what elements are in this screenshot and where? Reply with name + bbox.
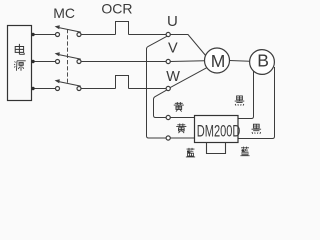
wire black lower from rectifier to brake	[239, 67, 275, 139]
svg-text:U: U	[167, 13, 178, 30]
glyph dian	[15, 44, 24, 55]
label huang upper	[174, 102, 184, 112]
wire row2 from source	[32, 61, 56, 63]
junction dot row3	[31, 87, 34, 90]
wire row3 MC to OCR	[81, 88, 116, 90]
power source box	[8, 26, 32, 101]
junction dot row1	[31, 33, 34, 36]
svg-text:B: B	[257, 50, 269, 70]
OCR heater element row3	[116, 76, 129, 89]
contactor MC pole 3	[55, 79, 81, 90]
label hei lower	[251, 124, 261, 134]
junction dot row2	[31, 60, 34, 63]
terminal W	[166, 86, 170, 90]
MC linkage dashed line	[67, 29, 69, 85]
wire row1 from source	[32, 34, 56, 36]
label hei upper	[235, 96, 245, 106]
svg-text:MC: MC	[53, 5, 75, 21]
svg-text:V: V	[168, 40, 178, 56]
wire yellow upper into rectifier	[170, 117, 194, 119]
glyph yuan	[14, 61, 26, 71]
contactor MC pole 1	[55, 25, 81, 36]
wire black upper from rectifier to brake	[239, 71, 254, 119]
label lan right	[240, 147, 249, 156]
wire U tap down to rectifier lower input	[147, 36, 168, 138]
wire row1 OCR to U	[129, 34, 167, 36]
wire row2 MC to V	[81, 61, 166, 63]
wire W tap down to rectifier upper input	[154, 90, 168, 118]
brake rectifier box	[195, 116, 239, 143]
svg-text:M: M	[211, 51, 226, 71]
terminal yellow lower	[166, 136, 170, 140]
wire V to motor	[170, 60, 204, 63]
wire row3 from source	[32, 88, 56, 90]
motor M	[205, 48, 230, 73]
contactor MC pole 2	[55, 52, 81, 63]
terminal V	[166, 59, 170, 63]
wire W to motor	[170, 68, 207, 88]
rectifier bottom tab	[207, 143, 226, 154]
wire motor to brake	[230, 60, 250, 63]
svg-text:W: W	[166, 69, 180, 85]
terminal U	[166, 32, 170, 36]
wire U to motor	[170, 35, 205, 56]
svg-text:OCR: OCR	[101, 1, 132, 17]
wire row3 OCR to W	[129, 88, 167, 90]
svg-text:DM200D: DM200D	[197, 121, 241, 140]
label huang lower	[176, 124, 186, 134]
wire row1 MC to OCR	[81, 34, 116, 36]
OCR heater element row1	[116, 22, 129, 35]
terminal yellow upper	[166, 115, 170, 119]
wire yellow lower into rectifier	[170, 137, 194, 139]
brake B	[250, 50, 275, 75]
label lan left	[186, 148, 195, 157]
